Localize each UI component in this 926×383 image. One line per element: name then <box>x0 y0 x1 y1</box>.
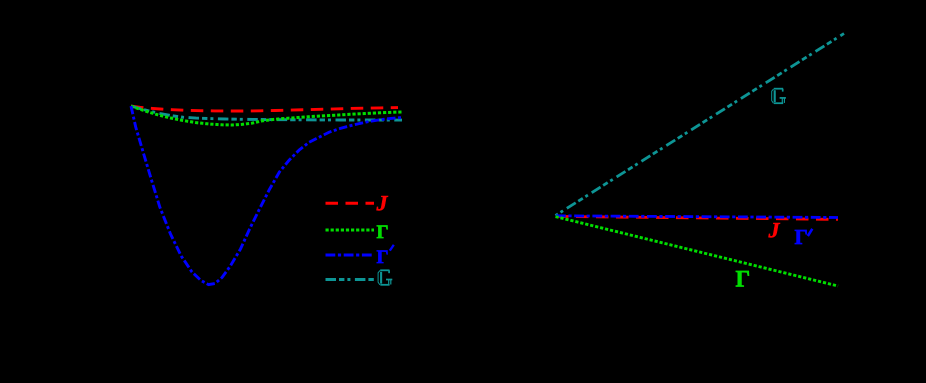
line Gamma-prime right panel (blue dash-dot) <box>556 216 838 218</box>
line Gamma right panel (green dotted) <box>556 217 839 286</box>
legend sample line Gamma (green dotted) <box>326 228 375 231</box>
svg-text:Γ: Γ <box>377 222 389 243</box>
line G right panel (teal dash-dot-dot) <box>556 34 845 216</box>
curve G left panel (teal dash-dot-dot) <box>131 106 402 120</box>
right panel label G double-struck <box>772 89 786 104</box>
legend label G double-struck <box>378 270 392 285</box>
curve Gamma-prime left panel (blue dash-dot) <box>131 106 403 285</box>
svg-text:Γ: Γ <box>736 267 751 292</box>
svg-text:J: J <box>768 218 781 243</box>
legend sample line J (red dashed) <box>326 202 375 205</box>
line J right panel (red dashed) <box>556 216 838 219</box>
legend label Gamma-prime tick <box>390 245 394 251</box>
svg-text:J: J <box>376 191 389 216</box>
svg-text:Γ: Γ <box>377 247 389 268</box>
curve J left panel (red dashed) <box>131 106 398 111</box>
curve Gamma left panel (green dotted) <box>131 106 403 125</box>
legend sample line Gamma-prime (blue dash-dot) <box>326 254 375 257</box>
svg-text:Γ: Γ <box>795 225 808 249</box>
legend sample line G (teal dash-dot-dot) <box>326 278 375 281</box>
right panel label Gamma-prime tick <box>808 229 813 236</box>
